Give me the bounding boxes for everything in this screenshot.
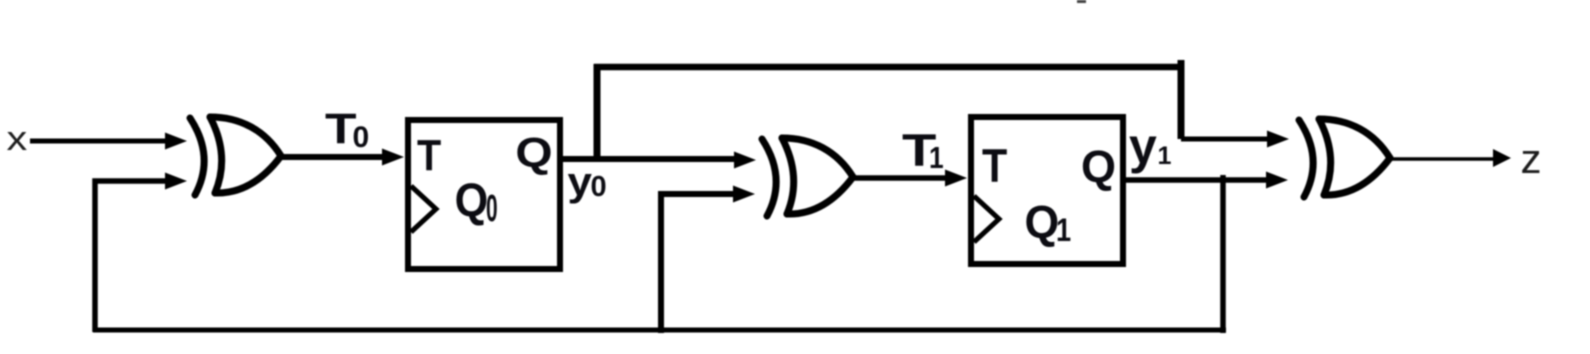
node T1 label xyxy=(902,125,944,175)
wire G2 output to FF2 T input xyxy=(851,175,948,181)
wire G3 output to z xyxy=(1389,157,1494,161)
FF2 clock chevron xyxy=(974,196,999,242)
svg-text:0: 0 xyxy=(591,171,607,203)
svg-text:x: x xyxy=(7,120,28,158)
wire y1: FF2 Q output to XOR3 bottom input xyxy=(1123,177,1268,183)
wire branch up from y0 xyxy=(594,64,601,162)
svg-text:1: 1 xyxy=(1158,142,1172,170)
wire y1 branch down to bottom feedback xyxy=(1220,175,1226,333)
svg-text:1: 1 xyxy=(929,141,944,175)
svg-text:y: y xyxy=(1129,118,1157,174)
svg-text:Q: Q xyxy=(515,129,552,177)
svg-text:0: 0 xyxy=(486,188,498,230)
wire top right vertical down xyxy=(1178,60,1185,139)
FF1 clock chevron xyxy=(411,186,436,232)
wire into XOR3 top input xyxy=(1181,137,1268,142)
wire G1 output to FF1 T input xyxy=(281,154,385,160)
wire feedback to XOR1 bottom input xyxy=(95,181,166,332)
svg-text:Q: Q xyxy=(455,173,489,226)
stray mark top edge xyxy=(1077,0,1086,3)
svg-text:Q: Q xyxy=(1081,141,1116,192)
svg-text:z: z xyxy=(1521,135,1542,182)
node T0 label xyxy=(325,105,369,154)
xor gate G3 xyxy=(1299,119,1390,197)
flip-flop FF2 box xyxy=(971,117,1123,264)
svg-text:T: T xyxy=(982,141,1007,193)
wire x to XOR1 top input xyxy=(30,139,166,144)
svg-text:Q: Q xyxy=(1025,196,1060,248)
FF1 name Q0 xyxy=(455,173,498,229)
xor gate G2 xyxy=(762,138,853,216)
wire feedback to XOR2 bottom input xyxy=(661,194,735,333)
wire top horizontal xyxy=(594,64,1181,71)
wire bottom feedback xyxy=(93,328,1226,333)
wire y0: FF1 Q output to XOR2 top input xyxy=(560,156,736,162)
svg-text:y: y xyxy=(568,159,593,204)
svg-text:0: 0 xyxy=(353,121,370,154)
svg-text:T: T xyxy=(417,130,442,179)
node y1 label xyxy=(1129,118,1172,174)
FF2 name Q1 xyxy=(1025,196,1072,248)
node y0 label xyxy=(568,159,607,204)
flip-flop FF1 box xyxy=(408,120,560,269)
svg-text:1: 1 xyxy=(1056,213,1071,249)
xor gate G1 xyxy=(190,117,281,195)
